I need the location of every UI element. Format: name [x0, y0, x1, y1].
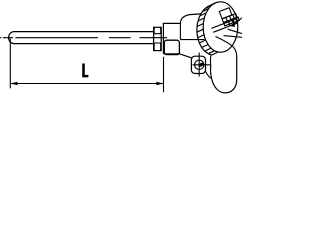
- head body: [163, 14, 204, 58]
- cable gland body: [219, 8, 232, 19]
- cap rim top end cap: [211, 2, 217, 5]
- leader line lower: [228, 29, 242, 33]
- cap rim bottom end cap: [212, 52, 218, 55]
- knurl ribs: [197, 3, 215, 54]
- clamp screw housing: [191, 56, 205, 73]
- head shoulder arc: [216, 37, 237, 57]
- dimension line L: [10, 83, 163, 85]
- terminal window: [164, 40, 179, 54]
- extension line right: [163, 57, 165, 93]
- probe sheath: [9, 32, 154, 44]
- cable arrow shaft: [234, 18, 242, 25]
- cable gland lower sleeve: [212, 19, 238, 32]
- cable gland ring 2: [224, 17, 240, 26]
- hex nut: [154, 27, 162, 50]
- shoulder line 2: [224, 36, 243, 38]
- bottom boss: [206, 55, 237, 93]
- extension line left: [9, 39, 11, 89]
- cap face ellipse E1: [203, 2, 238, 52]
- centerline: [0, 37, 167, 39]
- label L: [82, 64, 88, 78]
- cap back rim E2 (knurled outer edge): [197, 5, 212, 55]
- clamp screw: [193, 53, 211, 77]
- dimension arrow left: [10, 82, 17, 86]
- dimension arrow right: [156, 82, 163, 86]
- cable gland ring 1: [222, 14, 237, 23]
- cable arrow: [230, 22, 236, 27]
